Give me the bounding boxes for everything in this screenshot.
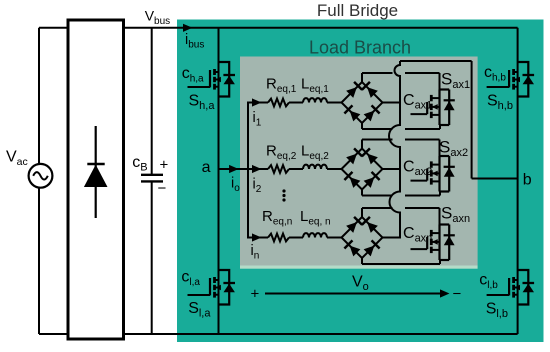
label ibus bbox=[185, 32, 204, 51]
in arrow bbox=[252, 233, 262, 241]
aux return bus right vertical bbox=[471, 61, 473, 179]
svg-text:b: b bbox=[523, 172, 532, 189]
resistor Req2 bbox=[268, 165, 289, 173]
branch 2 wire from bus bbox=[248, 168, 268, 170]
title Load Branch bbox=[309, 38, 411, 58]
wire L to bridge 2 bbox=[327, 168, 342, 170]
wire left ac loop bbox=[38, 28, 40, 334]
diode bridge 2 bbox=[342, 148, 383, 189]
Vo arrow bbox=[265, 289, 450, 297]
transistor Sax1 bbox=[411, 90, 455, 126]
title Full Bridge bbox=[317, 1, 398, 20]
label cB bbox=[132, 154, 147, 174]
wire B1 bottom dc bbox=[362, 124, 440, 129]
label io bbox=[231, 176, 240, 195]
gray region bottom highlight bbox=[240, 266, 478, 269]
bridge 2 top stub bbox=[361, 140, 363, 150]
wire cB top bbox=[151, 28, 153, 174]
source Vac circle bbox=[29, 164, 53, 188]
label Vo plus bbox=[251, 286, 260, 303]
label Cax1 bbox=[403, 92, 432, 112]
label i2 bbox=[253, 177, 262, 196]
svg-text:−: − bbox=[158, 180, 167, 197]
wire Bn bottom dc bbox=[362, 259, 440, 264]
label in bbox=[251, 243, 260, 262]
label a bbox=[202, 159, 211, 176]
inductor Leq1 bbox=[303, 98, 327, 102]
svg-text:Full Bridge: Full Bridge bbox=[317, 1, 398, 20]
label CB minus bbox=[158, 180, 167, 197]
wire R to L 2 bbox=[289, 168, 303, 170]
label Leq2 bbox=[301, 143, 329, 163]
aux return bus top bbox=[400, 60, 472, 62]
bridge n bottom stub bbox=[361, 257, 363, 264]
i2 arrow bbox=[252, 165, 262, 173]
wire A2 top dc bbox=[362, 140, 440, 158]
label i1 bbox=[253, 110, 262, 129]
svg-text:Load Branch: Load Branch bbox=[309, 38, 411, 58]
wire R to L 1 bbox=[289, 102, 303, 104]
label Caxn bbox=[403, 225, 432, 245]
label Req2 bbox=[266, 143, 297, 163]
bridge 2 ac right wire bbox=[383, 168, 401, 170]
transistor Sax2 bbox=[411, 156, 455, 192]
ibus arrow bbox=[183, 24, 193, 32]
wire R to L n bbox=[289, 237, 303, 239]
label Vo bbox=[352, 274, 369, 294]
label Sax1 bbox=[441, 69, 470, 91]
label Leqn bbox=[300, 208, 331, 228]
label Slb bbox=[486, 301, 508, 321]
wire to node b bbox=[472, 178, 518, 180]
resistor Reqn bbox=[268, 234, 289, 242]
wire leg b vertical bbox=[517, 28, 519, 334]
label Leq1 bbox=[301, 76, 329, 96]
svg-text:+: + bbox=[160, 157, 169, 174]
rectifier diode bbox=[84, 126, 108, 218]
diode bridge n bbox=[342, 217, 383, 258]
branch 1 wire from bus bbox=[248, 102, 268, 104]
label CB plus bbox=[160, 157, 169, 174]
node a branch bus bbox=[247, 102, 249, 239]
label Req1 bbox=[266, 76, 297, 96]
label Sax2 bbox=[439, 138, 468, 160]
bridge 1 bottom stub bbox=[361, 122, 363, 129]
label cla bbox=[181, 269, 200, 289]
transistor Sha bbox=[188, 62, 236, 97]
vertical dots bbox=[282, 189, 285, 201]
wire bottom return bus bbox=[39, 333, 518, 335]
label Shb bbox=[487, 93, 513, 113]
wire A1 top dc bbox=[362, 73, 440, 91]
wire top Vbus bus bbox=[39, 27, 518, 29]
transistor Saxn bbox=[411, 225, 455, 261]
transistor Sla bbox=[188, 270, 236, 305]
bridge n top stub bbox=[361, 208, 363, 218]
wire B2 bottom dc bbox=[362, 191, 440, 196]
diode bridge 1 bbox=[342, 82, 383, 123]
label Vbus bbox=[145, 8, 170, 28]
inductor Leqn bbox=[303, 233, 327, 237]
wire leg a vertical bbox=[218, 28, 220, 334]
bridge 2 bottom stub bbox=[361, 189, 363, 196]
label Saxn bbox=[441, 204, 470, 226]
transistor Slb bbox=[487, 270, 534, 305]
bridge 1 top stub bbox=[361, 73, 363, 83]
label Cax2 bbox=[403, 159, 432, 179]
rectifier box bbox=[68, 20, 124, 339]
bridge n ac right wire bbox=[383, 237, 401, 239]
wire node a bbox=[219, 168, 249, 170]
wire L to bridge 1 bbox=[327, 102, 342, 104]
transistor Shb bbox=[487, 62, 534, 97]
wire cB bottom bbox=[151, 181, 153, 334]
wire L to bridge n bbox=[327, 237, 342, 239]
label b bbox=[523, 172, 532, 189]
bridge 1 ac right wire bbox=[383, 102, 401, 104]
label cha bbox=[182, 65, 204, 85]
label chb bbox=[484, 64, 506, 84]
wire An top dc bbox=[362, 208, 440, 226]
aux return bus vertical with hops bbox=[389, 61, 400, 239]
label Sha bbox=[189, 93, 216, 113]
io arrow bbox=[229, 165, 239, 173]
svg-text:−: − bbox=[453, 286, 462, 303]
svg-text:+: + bbox=[251, 286, 260, 303]
label Vac bbox=[6, 149, 28, 169]
label clb bbox=[479, 272, 498, 292]
capacitor CB plates bbox=[141, 175, 163, 182]
i1 arrow bbox=[252, 98, 262, 106]
branch n wire from bus bbox=[248, 237, 268, 239]
resistor Req1 bbox=[268, 99, 289, 107]
label Vo minus bbox=[453, 286, 462, 303]
inductor Leq2 bbox=[303, 165, 327, 169]
Load Branch gray region bbox=[240, 57, 478, 266]
Full Bridge teal region bbox=[177, 20, 544, 343]
label Reqn bbox=[262, 208, 292, 228]
label Sla bbox=[188, 300, 211, 320]
svg-text:a: a bbox=[202, 159, 211, 176]
